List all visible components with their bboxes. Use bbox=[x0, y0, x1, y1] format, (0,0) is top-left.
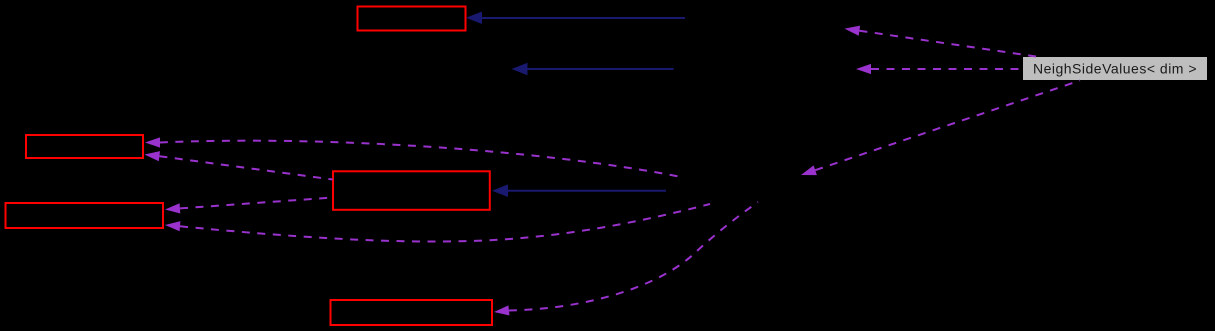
svg-text:NeighSideValues< dim >: NeighSideValues< dim > bbox=[1033, 60, 1197, 76]
